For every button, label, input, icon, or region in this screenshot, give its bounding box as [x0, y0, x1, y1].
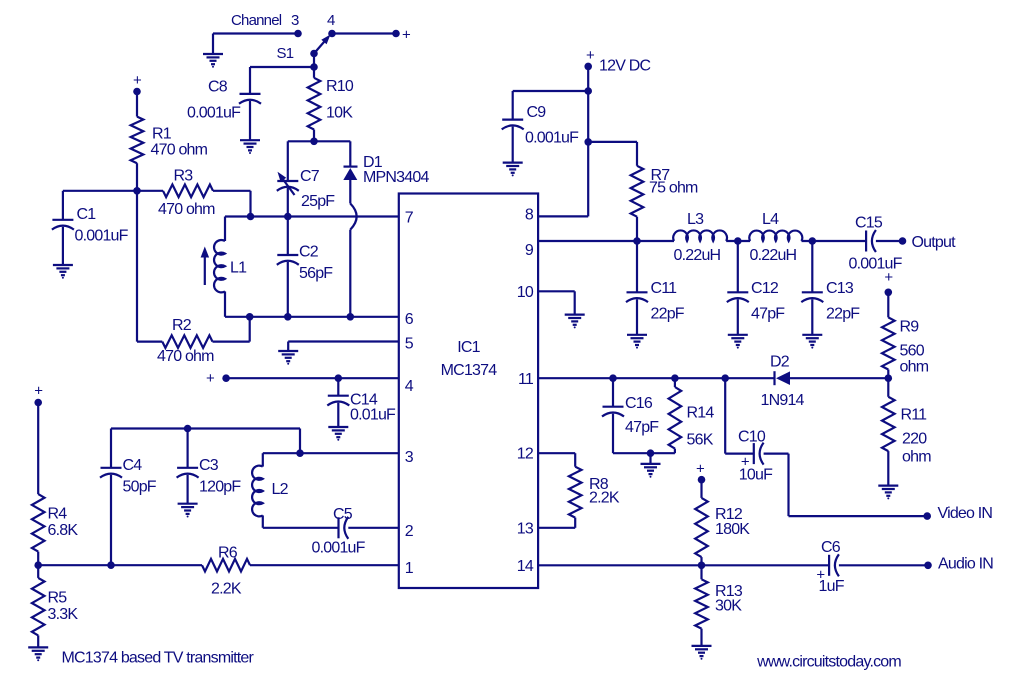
wire [513, 90, 589, 92]
svg-text:R3: R3 [174, 168, 194, 185]
wire [588, 141, 637, 143]
svg-text:Video IN: Video IN [938, 505, 993, 522]
svg-text:470 ohm: 470 ohm [158, 201, 215, 218]
wire [332, 32, 396, 34]
svg-text:ohm: ohm [900, 359, 929, 376]
svg-text:14: 14 [517, 558, 534, 575]
svg-text:C6: C6 [821, 539, 841, 556]
svg-text:4: 4 [405, 378, 414, 395]
svg-text:R10: R10 [326, 78, 354, 95]
svg-text:C9: C9 [527, 104, 547, 121]
wire [111, 427, 300, 429]
wire [63, 190, 137, 192]
svg-text:C3: C3 [199, 457, 219, 474]
svg-text:C7: C7 [300, 168, 320, 185]
svg-text:Audio IN: Audio IN [938, 556, 993, 573]
wire [764, 453, 789, 455]
ground [328, 426, 348, 428]
inductor L2 [262, 453, 264, 466]
node C13 junction [809, 237, 817, 245]
inductor L3 [673, 230, 727, 241]
svg-text:C4: C4 [123, 457, 143, 474]
svg-text:MPN3404: MPN3404 [363, 169, 429, 186]
svg-text:220: 220 [902, 431, 927, 448]
node R7 pin9 junction [633, 237, 641, 245]
svg-text:C12: C12 [751, 280, 779, 297]
ground [28, 646, 48, 648]
node R14 pin11 junction [671, 374, 679, 382]
wire [790, 377, 888, 379]
capacitor C13 [811, 241, 813, 292]
wire [250, 66, 314, 68]
wire [574, 291, 576, 314]
diode D1 [349, 141, 351, 166]
resistor R11 [887, 378, 889, 397]
svg-text:MC1374: MC1374 [441, 362, 498, 379]
svg-text:0.22uH: 0.22uH [750, 247, 797, 264]
capacitor C6 [828, 555, 830, 576]
ground [503, 162, 523, 164]
svg-text:10: 10 [517, 284, 534, 301]
svg-text:56pF: 56pF [299, 265, 333, 282]
wire [839, 564, 927, 566]
wire [649, 453, 651, 464]
svg-text:R5: R5 [48, 590, 68, 607]
wire [348, 527, 399, 529]
svg-text:Channel: Channel [231, 12, 282, 29]
svg-text:R6: R6 [218, 545, 238, 562]
svg-text:0.001uF: 0.001uF [187, 105, 241, 122]
svg-text:47pF: 47pF [625, 419, 659, 436]
svg-text:1uF: 1uF [819, 578, 845, 595]
svg-text:+: + [34, 383, 43, 400]
svg-text:+: + [402, 27, 411, 44]
resistor R3 [137, 190, 163, 192]
svg-text:8: 8 [525, 207, 534, 224]
resistor R9 [887, 292, 889, 317]
capacitor C1 [62, 191, 64, 220]
svg-text:12V DC: 12V DC [599, 58, 650, 75]
capacitor C12 [737, 241, 739, 292]
diode D2 [773, 371, 775, 385]
wire [538, 240, 674, 242]
wire [288, 140, 351, 142]
node R2 pin6 junction [246, 313, 254, 321]
svg-text:+: + [586, 47, 595, 64]
capacitor C8 [249, 67, 251, 94]
ground [641, 463, 661, 465]
inductor L1 [224, 217, 226, 242]
svg-text:12: 12 [517, 446, 534, 463]
svg-text:3: 3 [405, 449, 414, 466]
svg-text:0.001uF: 0.001uF [849, 256, 903, 273]
svg-text:470 ohm: 470 ohm [157, 348, 214, 365]
resistor R7 [636, 142, 638, 166]
ground [278, 350, 298, 352]
svg-text:R4: R4 [48, 506, 68, 523]
capacitor C11 [636, 241, 638, 292]
switch S1 [310, 50, 318, 58]
svg-text:3.3K: 3.3K [48, 606, 79, 623]
svg-text:ohm: ohm [902, 449, 931, 466]
svg-text:C5: C5 [333, 506, 353, 523]
svg-text:0.01uF: 0.01uF [350, 407, 396, 424]
wire [38, 564, 202, 566]
ground [240, 139, 260, 141]
wire [538, 290, 575, 292]
wire [288, 340, 399, 342]
svg-text:L1: L1 [230, 260, 247, 277]
capacitor C5 [337, 517, 339, 538]
svg-text:180K: 180K [715, 521, 750, 538]
svg-text:2.2K: 2.2K [589, 490, 620, 507]
resistor R2 [137, 341, 162, 343]
svg-text:Output: Output [912, 234, 957, 251]
wire [587, 66, 589, 216]
ground [627, 334, 647, 336]
capacitor C9 [512, 91, 514, 120]
ground [565, 314, 585, 316]
svg-text:56K: 56K [687, 432, 714, 449]
svg-text:www.circuitstoday.com: www.circuitstoday.com [756, 653, 901, 670]
svg-text:R14: R14 [687, 405, 715, 422]
ground [802, 334, 822, 336]
svg-text:3: 3 [291, 12, 299, 29]
capacitor C4 [110, 429, 112, 468]
resistor R5 [37, 565, 39, 578]
svg-text:1: 1 [405, 560, 414, 577]
wire [263, 452, 399, 454]
svg-text:+: + [206, 370, 215, 387]
node C3 rail junction [184, 425, 192, 433]
node L2 rail junction [296, 449, 304, 457]
node R9-R11 pin11 junction [885, 374, 893, 382]
svg-text:4: 4 [327, 12, 335, 29]
svg-text:R2: R2 [172, 317, 192, 334]
wire [299, 429, 301, 454]
node C16 pin11 junction [609, 374, 617, 382]
svg-text:+: + [696, 461, 705, 478]
svg-text:9: 9 [525, 242, 534, 259]
svg-text:+: + [133, 72, 142, 89]
svg-text:2: 2 [405, 523, 414, 540]
node C9 junction [584, 87, 592, 95]
svg-text:1N914: 1N914 [761, 392, 805, 409]
svg-text:L4: L4 [762, 211, 779, 228]
node + supply terminal [392, 30, 400, 38]
resistor R14 [674, 378, 676, 387]
wire [613, 452, 675, 454]
ground [203, 53, 223, 55]
svg-text:120pF: 120pF [199, 479, 241, 496]
wire [876, 240, 903, 242]
svg-text:25pF: 25pF [301, 193, 335, 210]
node R3 pin7 junction [247, 213, 255, 221]
svg-text:13: 13 [517, 521, 534, 538]
node C2 pin6 junction [284, 313, 292, 321]
node R10 bottom junction [310, 138, 318, 146]
svg-text:S1: S1 [277, 45, 294, 62]
svg-text:6.8K: 6.8K [48, 522, 79, 539]
svg-text:L3: L3 [687, 211, 704, 228]
svg-text:11: 11 [518, 371, 534, 388]
wire [538, 377, 774, 379]
ground [53, 264, 73, 266]
resistor R1 [136, 92, 138, 117]
ground [878, 485, 898, 487]
wire [313, 54, 315, 68]
svg-text:IC1: IC1 [457, 339, 480, 356]
node S1-C8-R10 junction [310, 63, 318, 71]
svg-text:C15: C15 [855, 215, 883, 232]
node C4 pin1 junction [107, 561, 115, 569]
wire [802, 240, 867, 242]
node C10 pin11 junction [721, 374, 729, 382]
node C7-C2 pin7 junction [284, 213, 292, 221]
ground [178, 503, 198, 505]
wire [538, 564, 828, 566]
wire [250, 564, 399, 566]
wire [213, 32, 298, 34]
svg-text:10uF: 10uF [739, 467, 773, 484]
capacitor C15 [865, 231, 867, 252]
svg-text:+: + [884, 269, 893, 286]
svg-text:C8: C8 [208, 79, 228, 96]
node R1-R3-C1 junction [133, 187, 141, 195]
wire [136, 191, 138, 342]
svg-text:47pF: 47pF [751, 306, 785, 323]
svg-text:7: 7 [405, 210, 414, 227]
node R4-R5 pin1 junction [34, 561, 42, 569]
svg-text:2.2K: 2.2K [211, 581, 242, 598]
capacitor C16 [612, 378, 614, 407]
svg-text:0.22uH: 0.22uH [674, 247, 721, 264]
node C16-R14 gnd junction [647, 449, 655, 457]
node C14 junction [335, 374, 343, 382]
svg-text:C2: C2 [299, 244, 319, 261]
svg-text:22pF: 22pF [826, 306, 860, 323]
capacitor C7 (variable) [287, 141, 289, 181]
wire [726, 240, 750, 242]
svg-text:C11: C11 [651, 280, 678, 297]
inductor L4 [749, 231, 802, 241]
resistor R4 [37, 403, 39, 495]
resistor R13 [700, 565, 702, 579]
node D1 pin6 junction [347, 313, 355, 321]
svg-text:6: 6 [405, 311, 414, 328]
svg-text:R11: R11 [901, 407, 928, 424]
node Channel-4 terminal [328, 30, 336, 38]
node R12-R13 pin14 junction [698, 562, 706, 570]
svg-text:C16: C16 [625, 395, 653, 412]
IC U1 MC1374 box [399, 194, 538, 589]
node Audio IN terminal [924, 562, 932, 570]
wire [789, 515, 928, 517]
svg-text:C13: C13 [826, 280, 854, 297]
wire [226, 377, 399, 379]
svg-text:D2: D2 [770, 354, 790, 371]
capacitor C3 [187, 429, 189, 468]
svg-text:0.001uF: 0.001uF [312, 540, 366, 557]
svg-text:R9: R9 [900, 319, 920, 336]
svg-text:R1: R1 [152, 126, 172, 143]
node Output terminal [899, 237, 907, 245]
svg-text:50pF: 50pF [123, 479, 157, 496]
node R7 junction [584, 138, 592, 146]
svg-text:0.001uF: 0.001uF [525, 130, 579, 147]
wire [263, 527, 339, 529]
ground [692, 645, 712, 647]
resistor R10 [313, 67, 315, 78]
svg-text:75 ohm: 75 ohm [649, 180, 698, 197]
ground [728, 334, 748, 336]
svg-text:C1: C1 [77, 206, 97, 223]
capacitor C10 [724, 378, 726, 453]
wire [249, 191, 251, 217]
node Channel-3 terminal [294, 30, 302, 38]
svg-text:470 ohm: 470 ohm [151, 142, 208, 159]
svg-text:MC1374 based TV transmitter: MC1374 based TV transmitter [62, 650, 255, 667]
capacitor C14 [337, 378, 339, 396]
svg-text:30K: 30K [715, 598, 742, 615]
wire [787, 454, 789, 516]
svg-text:560: 560 [900, 343, 925, 360]
node Video IN terminal [923, 512, 931, 520]
svg-text:5: 5 [405, 336, 414, 353]
wire [287, 342, 289, 352]
wire [225, 316, 399, 318]
resistor R6 [202, 559, 250, 572]
node C12 junction [734, 237, 742, 245]
wire [225, 215, 399, 217]
resistor R12 [700, 480, 702, 498]
capacitor C2 [287, 217, 289, 256]
svg-text:C10: C10 [738, 429, 766, 446]
wire [212, 34, 214, 55]
svg-text:10K: 10K [326, 105, 353, 122]
svg-text:22pF: 22pF [651, 306, 685, 323]
resistor R8 [538, 452, 575, 454]
svg-text:L2: L2 [272, 481, 289, 498]
svg-text:0.001uF: 0.001uF [75, 228, 129, 245]
wire [538, 215, 588, 217]
